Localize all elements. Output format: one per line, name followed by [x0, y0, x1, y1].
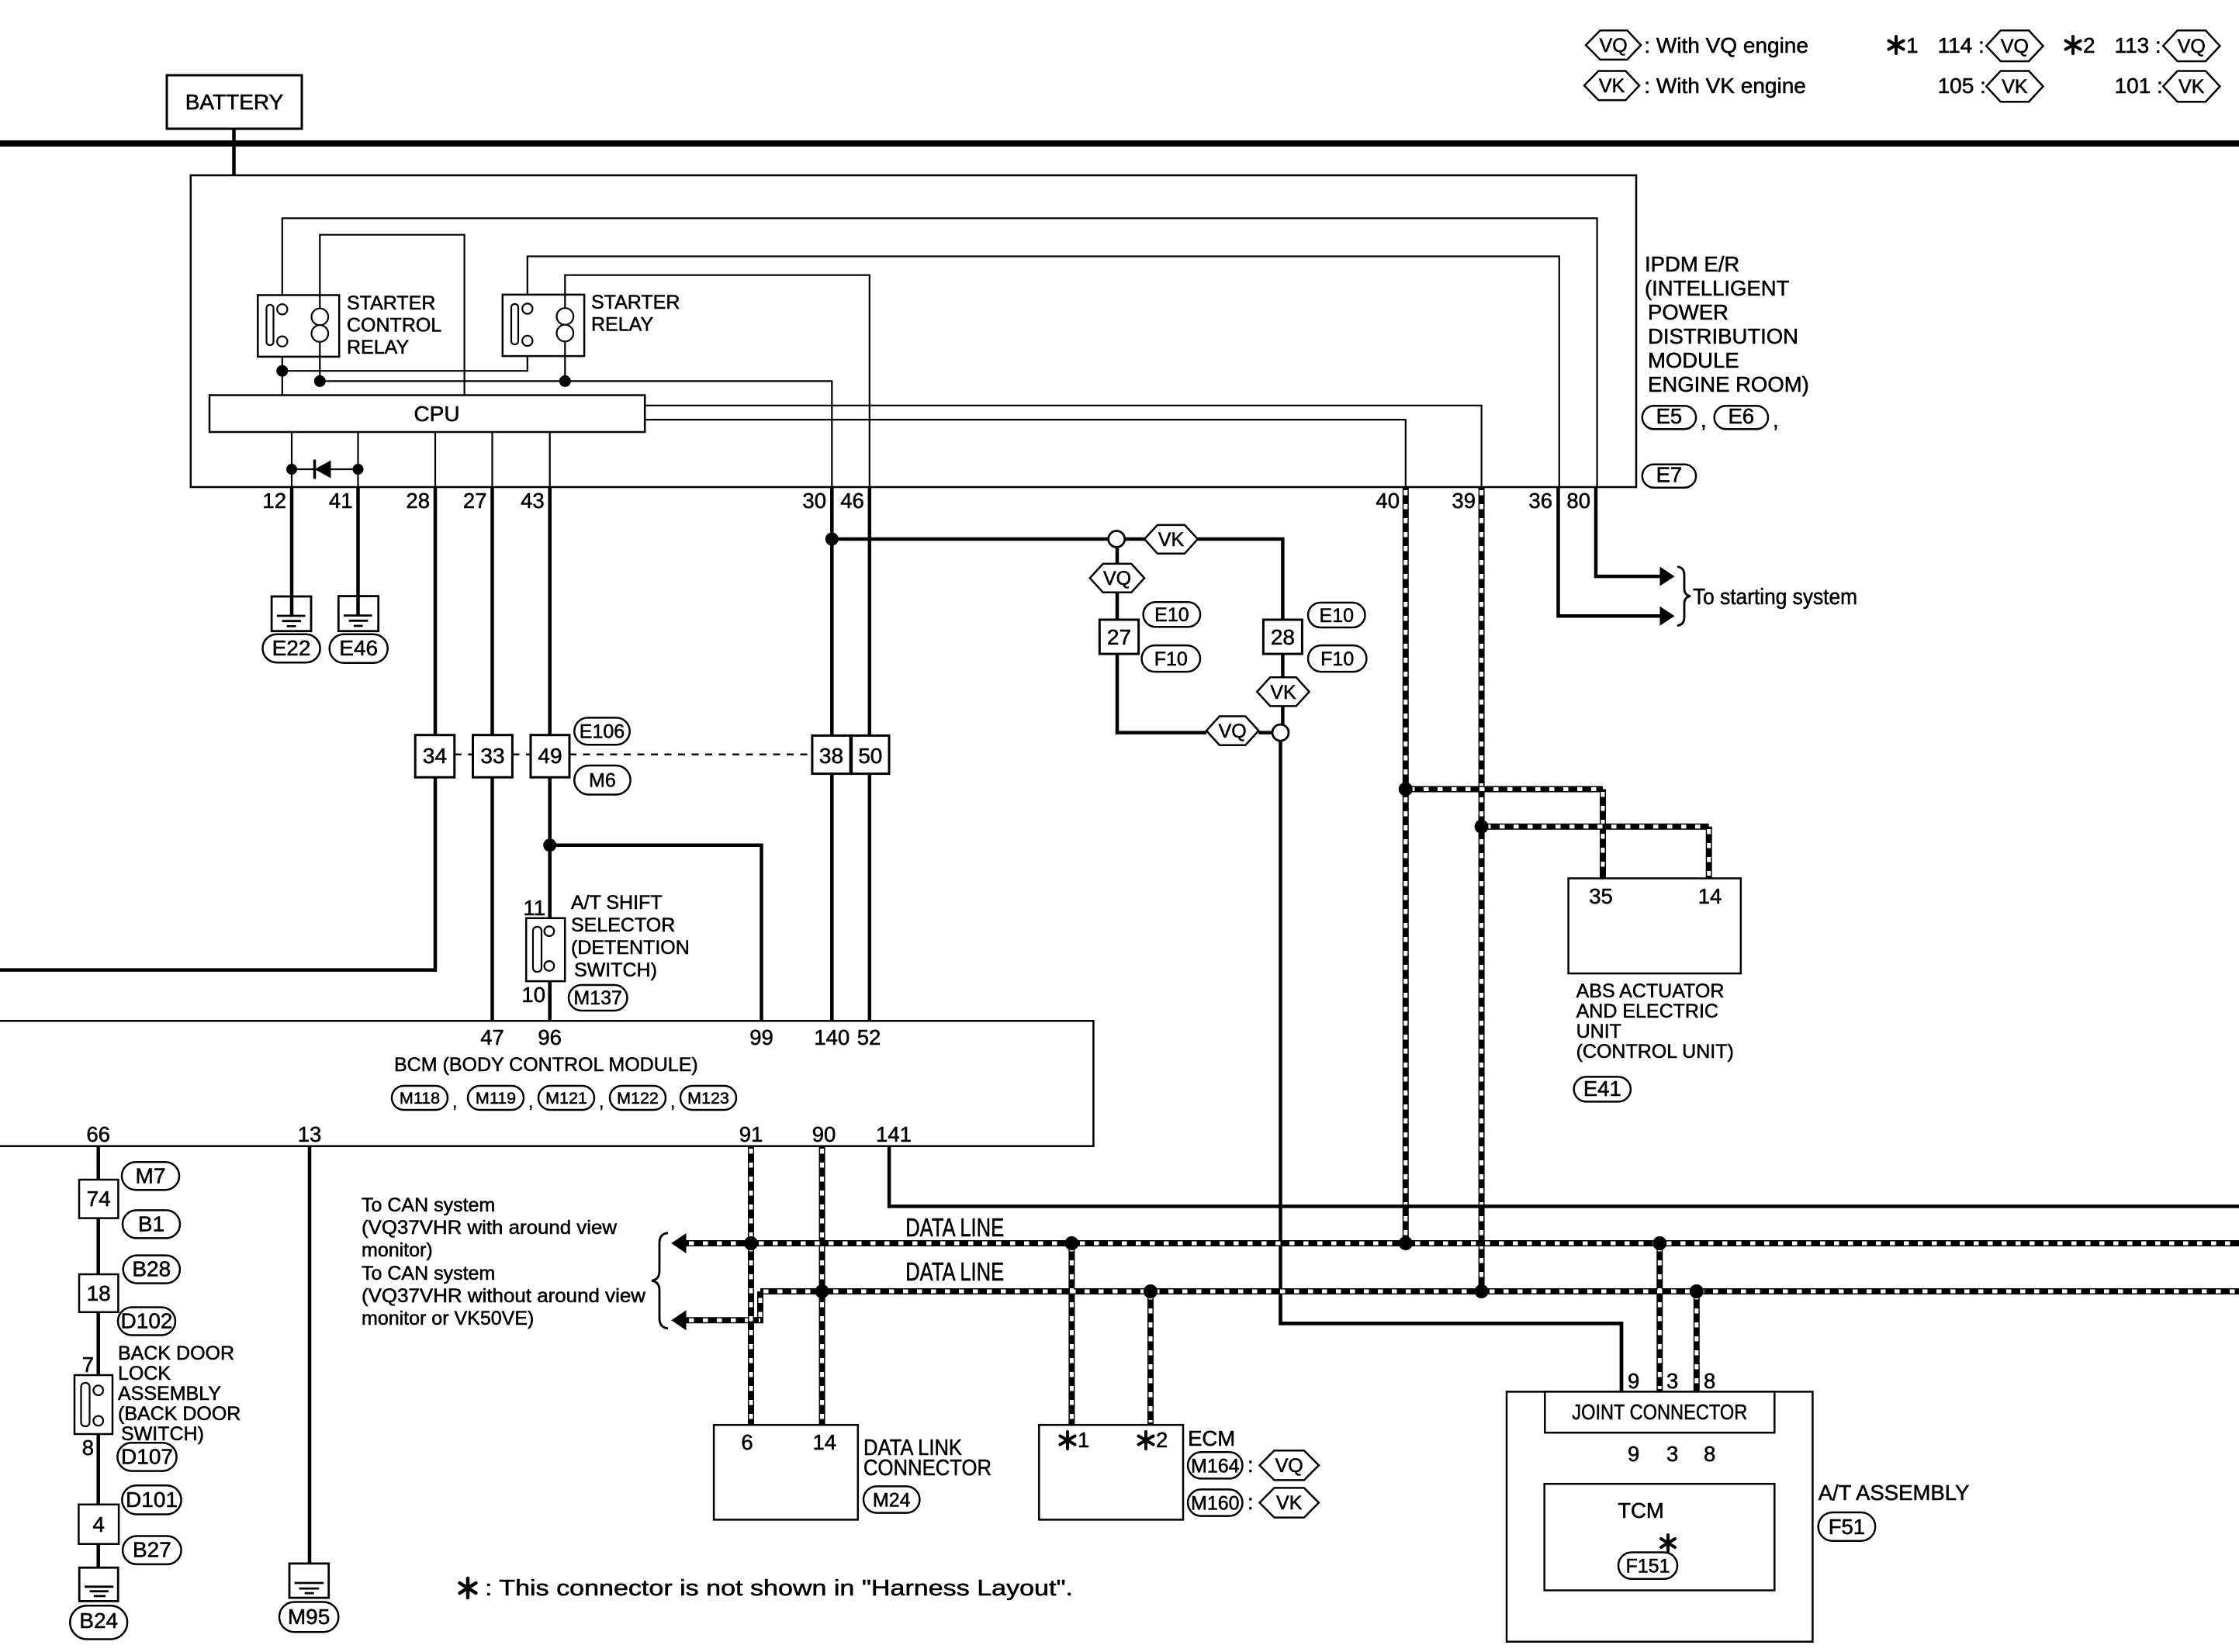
svg-text:A/T ASSEMBLY: A/T ASSEMBLY [1819, 1481, 1970, 1505]
svg-text:52: 52 [857, 1025, 881, 1049]
svg-text:7: 7 [82, 1353, 94, 1377]
svg-text:99: 99 [749, 1025, 773, 1049]
svg-text:ECM: ECM [1188, 1426, 1235, 1450]
svg-text:MODULE: MODULE [1648, 348, 1739, 372]
svg-text:RELAY: RELAY [591, 314, 653, 336]
svg-text:101 :: 101 : [2115, 74, 2163, 98]
svg-text:34: 34 [423, 744, 447, 768]
svg-text:105 :: 105 : [1938, 74, 1986, 98]
svg-text:IPDM E/R: IPDM E/R [1645, 252, 1739, 276]
svg-text:POWER: POWER [1648, 300, 1729, 324]
svg-text:: With VK engine: : With VK engine [1644, 74, 1806, 98]
svg-text:ENGINE ROOM): ENGINE ROOM) [1648, 372, 1809, 396]
svg-text:E7: E7 [1656, 463, 1683, 487]
svg-text:M122: M122 [617, 1089, 659, 1108]
svg-text:RELAY: RELAY [347, 337, 409, 358]
svg-text:CONTROL: CONTROL [347, 315, 441, 337]
svg-text:VQ: VQ [2001, 36, 2029, 57]
svg-text:2: 2 [1156, 1428, 1168, 1452]
svg-text:F151: F151 [1626, 1556, 1670, 1578]
svg-text:E46: E46 [339, 636, 378, 660]
svg-text:LOCK: LOCK [118, 1363, 171, 1384]
svg-text:50: 50 [858, 744, 882, 768]
svg-text:14: 14 [813, 1430, 837, 1454]
svg-text:141: 141 [876, 1122, 912, 1146]
svg-text:VK: VK [2178, 76, 2205, 98]
svg-text:E6: E6 [1728, 404, 1754, 428]
svg-text:,: , [1701, 408, 1707, 432]
svg-text:To CAN system: To CAN system [362, 1263, 495, 1284]
svg-text:(CONTROL UNIT): (CONTROL UNIT) [1576, 1041, 1734, 1063]
svg-text:JOINT CONNECTOR: JOINT CONNECTOR [1572, 1400, 1747, 1424]
svg-text:To starting system: To starting system [1693, 585, 1857, 610]
svg-text:30: 30 [802, 489, 826, 513]
svg-text:B1: B1 [138, 1212, 164, 1236]
svg-text:ASSEMBLY: ASSEMBLY [118, 1383, 221, 1405]
svg-text:49: 49 [538, 744, 562, 768]
svg-text:11: 11 [523, 896, 545, 920]
svg-text:E5: E5 [1656, 404, 1683, 428]
svg-text:A/T SHIFT: A/T SHIFT [571, 892, 663, 914]
svg-text:DATA LINE: DATA LINE [905, 1213, 1004, 1242]
svg-text:: This connector is not shown: : This connector is not shown in "Harnes… [485, 1576, 1073, 1601]
svg-text:SELECTOR: SELECTOR [571, 914, 675, 936]
svg-text:VQ: VQ [1600, 35, 1628, 57]
svg-text:B27: B27 [133, 1538, 171, 1562]
svg-text:33: 33 [480, 744, 504, 768]
svg-text:VQ: VQ [1103, 568, 1131, 589]
svg-text:(VQ37VHR with around view: (VQ37VHR with around view [362, 1217, 618, 1239]
svg-text:(INTELLIGENT: (INTELLIGENT [1645, 276, 1790, 300]
svg-text:3: 3 [1666, 1442, 1678, 1466]
svg-text:B24: B24 [79, 1609, 118, 1633]
svg-text:74: 74 [87, 1187, 111, 1211]
svg-text:9: 9 [1628, 1369, 1639, 1393]
svg-text:,: , [599, 1091, 604, 1111]
svg-text:D101: D101 [126, 1488, 178, 1512]
svg-text:3: 3 [1666, 1369, 1678, 1393]
svg-text:2: 2 [2083, 33, 2095, 57]
svg-text:M24: M24 [873, 1490, 911, 1512]
svg-text:27: 27 [463, 489, 487, 513]
svg-text:VK: VK [1270, 682, 1296, 703]
svg-text:40: 40 [1376, 489, 1400, 513]
svg-text:36: 36 [1528, 489, 1552, 513]
svg-text:F10: F10 [1154, 648, 1188, 670]
svg-text:12: 12 [262, 489, 286, 513]
svg-text:E106: E106 [580, 721, 625, 743]
svg-text:18: 18 [87, 1281, 111, 1305]
svg-text:28: 28 [1271, 625, 1295, 649]
svg-text:UNIT: UNIT [1576, 1021, 1621, 1042]
svg-text:: With VQ engine: : With VQ engine [1644, 33, 1808, 57]
svg-text:CONNECTOR: CONNECTOR [863, 1456, 991, 1481]
svg-text:28: 28 [406, 489, 430, 513]
svg-text:VK: VK [1276, 1492, 1303, 1514]
svg-text:BACK DOOR: BACK DOOR [118, 1343, 234, 1364]
svg-text:M95: M95 [288, 1605, 330, 1629]
svg-text:,: , [528, 1091, 533, 1111]
svg-text:M160: M160 [1191, 1493, 1240, 1515]
svg-text:(DETENTION: (DETENTION [571, 937, 690, 959]
svg-text:,: , [1773, 408, 1779, 432]
svg-text:66: 66 [86, 1122, 110, 1146]
svg-text:39: 39 [1452, 489, 1476, 513]
svg-text:,: , [452, 1091, 457, 1111]
svg-text:14: 14 [1698, 884, 1722, 908]
svg-text:90: 90 [812, 1122, 836, 1146]
svg-text:9: 9 [1628, 1442, 1639, 1466]
svg-text:8: 8 [1704, 1442, 1715, 1466]
svg-text:41: 41 [329, 489, 353, 513]
svg-text:STARTER: STARTER [347, 292, 435, 314]
svg-text:E41: E41 [1583, 1077, 1621, 1101]
svg-text:SWITCH): SWITCH) [121, 1423, 204, 1445]
svg-text::: : [1248, 1490, 1254, 1514]
svg-text:M164: M164 [1191, 1456, 1240, 1477]
svg-text:M118: M118 [400, 1089, 440, 1108]
svg-text:80: 80 [1566, 489, 1590, 513]
svg-text:47: 47 [480, 1025, 504, 1049]
svg-text:(BACK DOOR: (BACK DOOR [118, 1403, 241, 1425]
svg-text:ABS ACTUATOR: ABS ACTUATOR [1576, 980, 1725, 1002]
svg-text:D102: D102 [121, 1309, 173, 1333]
svg-text:VK: VK [1158, 529, 1185, 551]
svg-text:F10: F10 [1320, 648, 1354, 670]
svg-text:E22: E22 [272, 636, 311, 660]
svg-text:DATA LINE: DATA LINE [905, 1257, 1004, 1286]
svg-text:BCM (BODY CONTROL MODULE): BCM (BODY CONTROL MODULE) [394, 1054, 698, 1076]
svg-text:VQ: VQ [2178, 36, 2206, 57]
svg-text:M121: M121 [545, 1089, 587, 1108]
svg-text:113 :: 113 : [2115, 33, 2161, 57]
svg-text:B28: B28 [132, 1257, 171, 1281]
svg-text:F51: F51 [1829, 1515, 1865, 1539]
svg-text:monitor or VK50VE): monitor or VK50VE) [362, 1308, 534, 1329]
svg-text:(VQ37VHR without around view: (VQ37VHR without around view [362, 1285, 646, 1307]
svg-text:To CAN system: To CAN system [362, 1194, 495, 1216]
svg-text:E10: E10 [1320, 605, 1354, 627]
svg-text:monitor): monitor) [362, 1239, 433, 1261]
svg-text:8: 8 [82, 1436, 94, 1460]
svg-text:4: 4 [92, 1512, 105, 1536]
svg-text:10: 10 [521, 983, 545, 1007]
svg-text:M123: M123 [687, 1089, 729, 1108]
svg-text:,: , [670, 1091, 675, 1111]
svg-text:DISTRIBUTION: DISTRIBUTION [1648, 324, 1798, 348]
svg-text:38: 38 [819, 744, 843, 768]
svg-text:STARTER: STARTER [591, 292, 680, 313]
svg-text:43: 43 [521, 489, 545, 513]
svg-text:BATTERY: BATTERY [185, 90, 284, 114]
svg-text:VK: VK [1599, 75, 1625, 97]
svg-text:VQ: VQ [1275, 1455, 1303, 1477]
svg-text:6: 6 [741, 1430, 753, 1454]
svg-text:13: 13 [298, 1122, 322, 1146]
svg-text:M7: M7 [136, 1164, 166, 1188]
svg-text:140: 140 [814, 1025, 850, 1049]
svg-text:27: 27 [1107, 625, 1131, 649]
svg-text:35: 35 [1589, 884, 1613, 908]
svg-text:VQ: VQ [1219, 721, 1247, 742]
svg-text:M6: M6 [589, 770, 616, 792]
svg-text::: : [1248, 1453, 1254, 1477]
svg-text:114 :: 114 : [1938, 33, 1985, 57]
svg-text:8: 8 [1704, 1369, 1715, 1393]
svg-text:VK: VK [2002, 76, 2028, 98]
svg-text:TCM: TCM [1618, 1498, 1664, 1522]
svg-text:46: 46 [840, 489, 864, 513]
svg-text:AND ELECTRIC: AND ELECTRIC [1576, 1001, 1718, 1022]
svg-text:M119: M119 [476, 1089, 516, 1108]
svg-text:D107: D107 [121, 1445, 173, 1469]
svg-text:M137: M137 [573, 987, 622, 1009]
svg-text:91: 91 [739, 1122, 763, 1146]
svg-text:1: 1 [1906, 33, 1919, 57]
svg-text:1: 1 [1078, 1428, 1089, 1452]
svg-text:E10: E10 [1154, 604, 1189, 626]
svg-text:96: 96 [538, 1025, 562, 1049]
svg-text:SWITCH): SWITCH) [574, 959, 657, 981]
svg-text:CPU: CPU [414, 402, 459, 426]
